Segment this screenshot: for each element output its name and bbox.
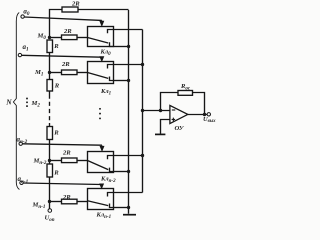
- wire M1 row to 2R: [50, 72, 62, 74]
- wire a1 control line: [22, 55, 102, 57]
- op-amp plus sign: [172, 118, 176, 122]
- wire feedback up and over: [161, 93, 179, 111]
- op-amp minus sign: [172, 109, 176, 111]
- wire Kln-2 top out to bus B: [114, 155, 143, 157]
- svg-text:R: R: [53, 130, 59, 137]
- arrow a n-2 into Kln-2: [100, 145, 104, 151]
- wire ladder dashed continuation: [49, 95, 51, 124]
- wire 2R row n-2 to switch Kln-2: [77, 160, 88, 162]
- resistor R between Mn-2 and Mn-1: [47, 164, 53, 177]
- resistor 2R top terminator: [62, 7, 78, 12]
- arrow a0 into Kl0: [100, 20, 104, 26]
- switch Kln-2 bottom contact: [110, 168, 114, 172]
- switch Kln-2 top contact: [108, 156, 114, 160]
- wire Mn-1 row to 2R: [50, 201, 62, 203]
- ground at op-amp plus input: [155, 133, 165, 135]
- junction feedback output: [203, 113, 206, 116]
- wire M0 row to 2R: [50, 37, 62, 39]
- node Mn-1: [48, 200, 51, 203]
- switch Kl0 arm: [88, 38, 109, 44]
- dots continuation left: [26, 98, 28, 108]
- terminal a n-1: [20, 181, 23, 184]
- junction bus B op-amp: [141, 109, 144, 112]
- wire Kln-1 top out to bus B end: [114, 192, 143, 194]
- resistor R below M1: [47, 80, 53, 92]
- svg-text:2R: 2R: [62, 194, 71, 201]
- terminal a0: [21, 15, 24, 18]
- switch Kln-1 arm: [88, 201, 109, 206]
- wire noninverting input to ground: [161, 120, 171, 134]
- wire ladder R to Mn-2: [49, 140, 51, 165]
- junction Kl0 to bus A: [127, 45, 130, 48]
- terminal a n-2: [19, 142, 22, 145]
- switch Kln-2 arm: [88, 161, 109, 170]
- wire a0 control line: [24, 17, 102, 20]
- bus A ground bus vertical: [128, 10, 130, 214]
- wire Kl0 top out to bus B: [114, 29, 143, 31]
- bus B summing bus vertical: [142, 30, 144, 193]
- node M1: [48, 71, 51, 74]
- wire Mn-2 row to 2R: [50, 160, 62, 162]
- wire Kl0 bottom out to bus A: [114, 46, 129, 48]
- wire op-amp output: [188, 114, 207, 116]
- brace N left curly bracket: [13, 13, 19, 190]
- terminal Uop: [48, 209, 52, 213]
- junction feedback tap: [159, 109, 162, 112]
- svg-text:2R: 2R: [61, 61, 70, 68]
- wire 2R row n-1 to switch Kln-1: [77, 201, 88, 203]
- terminal a1: [18, 53, 21, 56]
- svg-text:2R: 2R: [71, 1, 80, 8]
- wire summing bus to op-amp inverting input: [143, 110, 171, 112]
- wire feedback to output node: [193, 93, 205, 115]
- resistor Roc feedback: [178, 91, 193, 96]
- node M0: [48, 36, 51, 39]
- wire ladder R to Mn-1: [49, 177, 51, 202]
- svg-text:R: R: [53, 169, 59, 176]
- switch Kl1 top contact: [108, 65, 114, 69]
- ground at bottom of bus A: [123, 214, 136, 216]
- switch Kln-1 box: [88, 189, 114, 210]
- switch Kln-1 top contact: [108, 193, 114, 197]
- svg-text:N: N: [5, 98, 12, 107]
- switch Kl1 box: [88, 62, 114, 84]
- resistor 2R row 1: [62, 70, 78, 75]
- junction bus B Kl1: [141, 63, 144, 66]
- wire ladder M0R to M1: [49, 53, 51, 80]
- svg-text:2R: 2R: [63, 28, 72, 35]
- junction Kln-2 to bus A: [127, 170, 130, 173]
- wire Kln-1 bottom out to bus A: [114, 207, 129, 209]
- switch Kln-1 bottom contact: [110, 204, 114, 208]
- switch Kl0 bottom contact: [110, 42, 114, 46]
- wire ladder top segment from M0 up to 2R: [50, 10, 63, 38]
- junction Kln-1 to bus A: [127, 206, 130, 209]
- wire a_n-1 control line: [23, 183, 101, 185]
- resistor 2R row n-2: [62, 158, 78, 163]
- wire ladder below R: [49, 91, 51, 95]
- wire a_n-2 control line: [22, 144, 102, 145]
- svg-text:R: R: [53, 43, 59, 50]
- node Mn-2: [48, 159, 51, 162]
- junction Kl1 to bus A: [127, 79, 130, 82]
- resistor 2R row 0: [62, 35, 78, 40]
- wire 2R row0 to switch Kl0: [77, 37, 88, 39]
- resistor R between M0 and M1: [47, 40, 53, 53]
- op-amp OU triangle: [170, 105, 188, 123]
- arrow a n-1 into Kln-1: [100, 184, 104, 188]
- switch Kln-2 box: [88, 152, 114, 173]
- svg-text:ОУ: ОУ: [175, 125, 185, 132]
- svg-text:2R: 2R: [62, 149, 71, 156]
- resistor 2R row n-1: [62, 199, 78, 204]
- junction bus B Kln-2: [141, 154, 144, 157]
- switch Kl0 box: [88, 27, 114, 47]
- wire Kl1 bottom out to bus A: [114, 80, 129, 82]
- wire top 2R to ground bus A: [78, 9, 129, 11]
- switch Kl0 top contact: [108, 30, 114, 34]
- dots continuation switch column: [99, 108, 101, 120]
- switch Kl1 bottom contact: [110, 77, 114, 81]
- wire Kln-2 bottom out to bus A: [114, 171, 129, 173]
- svg-text:R: R: [54, 82, 60, 89]
- wire Mn-1 down to Uop terminal: [49, 202, 51, 209]
- terminal Uvyh output: [207, 113, 210, 116]
- wire 2R row1 to switch Kl1: [77, 72, 88, 74]
- wire Kl1 top out to bus B: [114, 64, 143, 66]
- wire ladder to mid R: [49, 123, 51, 127]
- switch Kl1 arm: [88, 73, 109, 79]
- resistor R above Mn-2: [47, 127, 53, 140]
- arrow a1 into Kl1: [100, 57, 104, 62]
